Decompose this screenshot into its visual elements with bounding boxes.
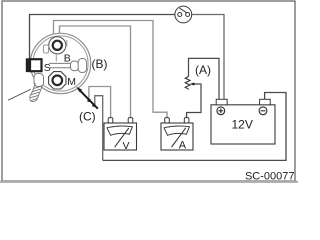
wire: resistor top to battery positive	[189, 58, 220, 99]
clip junction 2	[92, 104, 95, 107]
terminal M (nut + double circle)	[49, 72, 66, 89]
wire: switch to battery positive (right vertical)	[192, 15, 224, 100]
wire: bottom return to battery negative	[103, 93, 286, 161]
svg-text:12V: 12V	[232, 118, 253, 132]
plus symbol	[217, 107, 225, 115]
lower-left tab	[34, 74, 44, 87]
leader line to boot	[8, 89, 31, 100]
svg-text:(B): (B)	[92, 57, 108, 71]
cable arrowhead at solenoid rim	[76, 87, 82, 93]
ammeter A	[161, 118, 193, 150]
terminal B (double circle)	[49, 37, 66, 54]
lever end cap	[71, 61, 79, 71]
svg-text:A: A	[179, 140, 187, 152]
battery positive post	[216, 99, 227, 105]
voltmeter scale band	[107, 126, 132, 135]
wire: B terminal to voltmeter right post (gray)	[60, 26, 131, 118]
frame bottom gray band	[0, 181, 298, 183]
svg-text:M: M	[67, 76, 76, 88]
solenoid plunger/lever slot	[49, 62, 71, 64]
small detail rect left of B	[44, 45, 49, 53]
wire: M cable clip to voltmeter left post (gray)	[89, 87, 111, 118]
rheostat R (zigzag)	[185, 77, 190, 90]
right side tab	[78, 59, 86, 73]
svg-text:SC-00077: SC-00077	[245, 170, 295, 182]
solenoid inner rim	[33, 36, 88, 91]
switch SW (magnetic switch symbol)	[175, 6, 192, 23]
M terminal battery cable (thick diagonal)	[78, 89, 98, 109]
svg-text:(A): (A)	[195, 63, 211, 77]
svg-text:V: V	[123, 140, 130, 152]
svg-text:B: B	[64, 53, 71, 65]
rubber boot connector (hatched)	[30, 83, 42, 102]
voltmeter V	[104, 118, 137, 150]
ammeter needle	[172, 128, 186, 147]
wiper arrowhead	[190, 83, 195, 86]
battery BAT 12V	[211, 105, 275, 144]
border frame	[2, 1, 295, 181]
clip junction 1	[88, 99, 91, 102]
wire: switch to S terminal (black, top-left)	[30, 15, 175, 59]
solenoid body (starter magnetic switch, outer case)	[30, 33, 90, 93]
svg-text:(C): (C)	[79, 110, 96, 124]
ammeter scale band	[164, 126, 189, 135]
wire: B terminal to ammeter left post (gray)	[54, 21, 168, 118]
wire: ammeter right post to rheostat wiper	[187, 84, 201, 118]
small stub right of B	[66, 40, 68, 47]
voltmeter needle	[115, 128, 129, 147]
minus symbol	[259, 107, 267, 115]
wire: M cable clip to ground/bottom wire	[95, 96, 103, 161]
terminal S connector (black strip + square)	[26, 58, 29, 72]
stub below B	[55, 54, 57, 62]
battery negative post	[260, 99, 271, 105]
